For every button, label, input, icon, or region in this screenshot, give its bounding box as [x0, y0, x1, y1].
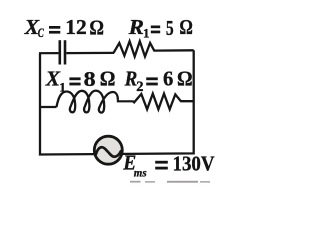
svg-text:Ω: Ω	[100, 66, 116, 90]
svg-text:5: 5	[166, 16, 174, 40]
svg-text:12: 12	[65, 15, 87, 39]
svg-text:Ω: Ω	[179, 15, 193, 39]
svg-text:1: 1	[59, 80, 65, 95]
svg-text:R: R	[124, 66, 138, 90]
wire: left rail + bottom wire + right rail (outer loop)	[40, 50, 194, 154]
wire: middle branch left entry	[39, 106, 57, 108]
svg-text:1: 1	[143, 26, 150, 41]
svg-text:C: C	[38, 25, 44, 40]
svg-text:130V: 130V	[173, 152, 215, 176]
wire: top wire middle segment	[66, 52, 114, 54]
resistor R1 zigzag	[114, 41, 194, 56]
svg-text:2: 2	[136, 79, 143, 95]
capacitor XC right plate	[64, 40, 67, 64]
wire: top wire left segment	[39, 52, 58, 54]
wire: between coil and R2	[118, 100, 134, 102]
svg-text:6: 6	[163, 66, 173, 90]
resistor R2 zigzag	[133, 94, 193, 110]
capacitor XC left plate	[58, 40, 61, 64]
svg-text:8: 8	[84, 67, 96, 91]
svg-text:ms: ms	[134, 165, 147, 179]
AC source Ems circle	[94, 136, 122, 164]
svg-text:Ω: Ω	[89, 15, 104, 39]
inductor X1 coil	[57, 91, 118, 113]
cropped next-line text remnants (scan)	[130, 181, 141, 183]
svg-text:R: R	[128, 15, 144, 39]
svg-text:Ω: Ω	[177, 66, 193, 90]
AC source sine wave	[96, 147, 121, 157]
